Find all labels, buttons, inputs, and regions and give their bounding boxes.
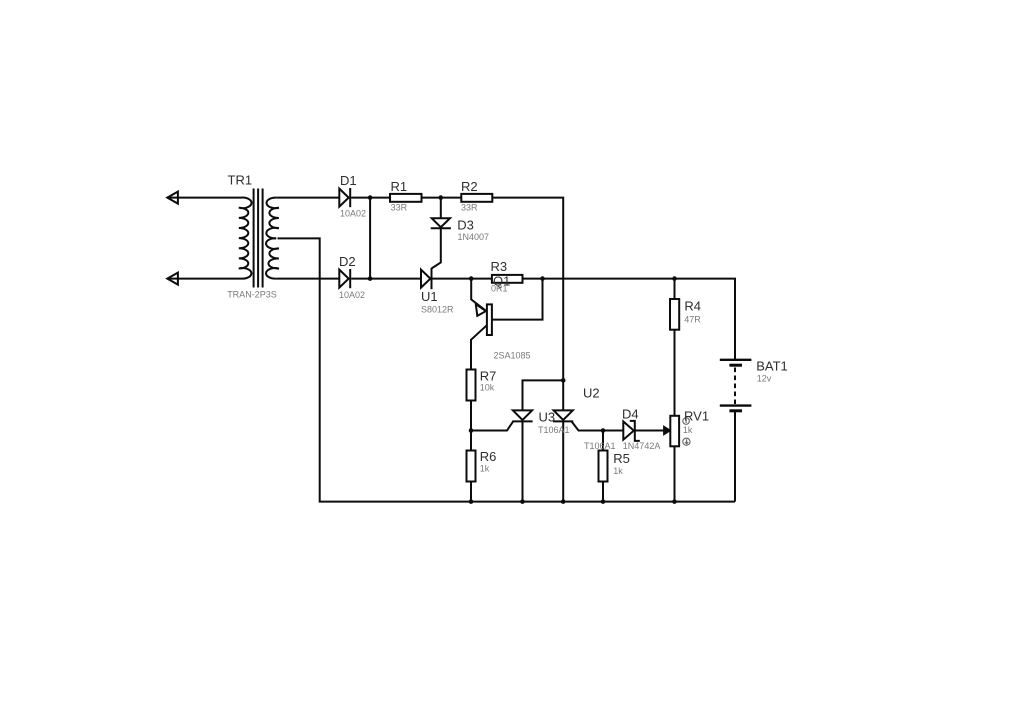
svg-text:1N4742A: 1N4742A <box>623 441 661 451</box>
svg-text:U2: U2 <box>583 386 600 401</box>
svg-text:1k: 1k <box>480 464 490 474</box>
svg-text:D1: D1 <box>340 173 357 188</box>
svg-text:33R: 33R <box>391 202 408 212</box>
svg-text:TR1: TR1 <box>228 173 253 188</box>
svg-text:U1: U1 <box>421 289 438 304</box>
svg-text:R4: R4 <box>684 299 701 314</box>
svg-text:T106A1: T106A1 <box>538 425 570 435</box>
svg-text:33R: 33R <box>461 203 478 213</box>
svg-text:D2: D2 <box>339 254 356 269</box>
svg-text:10A02: 10A02 <box>340 208 366 218</box>
svg-text:1k: 1k <box>683 425 693 435</box>
svg-text:47R: 47R <box>684 314 701 324</box>
svg-text:0R1: 0R1 <box>491 283 508 293</box>
svg-text:10A02: 10A02 <box>339 290 365 300</box>
svg-text:2SA1085: 2SA1085 <box>494 350 531 360</box>
svg-text:BAT1: BAT1 <box>756 359 788 374</box>
svg-text:R6: R6 <box>480 449 497 464</box>
svg-text:12v: 12v <box>757 373 772 383</box>
svg-text:D3: D3 <box>457 218 474 233</box>
svg-text:1N4007: 1N4007 <box>458 232 490 242</box>
svg-text:R1: R1 <box>391 179 408 194</box>
svg-text:D4: D4 <box>622 406 639 421</box>
svg-text:S8012R: S8012R <box>421 304 454 314</box>
svg-text:U3: U3 <box>539 410 556 425</box>
svg-text:T106A1: T106A1 <box>584 441 616 451</box>
svg-text:1k: 1k <box>613 466 623 476</box>
svg-text:R5: R5 <box>613 451 630 466</box>
svg-text:TRAN-2P3S: TRAN-2P3S <box>227 290 277 300</box>
svg-text:R7: R7 <box>480 369 497 384</box>
svg-text:10k: 10k <box>480 382 495 392</box>
svg-text:R2: R2 <box>461 179 478 194</box>
svg-text:RV1: RV1 <box>684 409 709 424</box>
svg-text:R3: R3 <box>491 259 508 274</box>
